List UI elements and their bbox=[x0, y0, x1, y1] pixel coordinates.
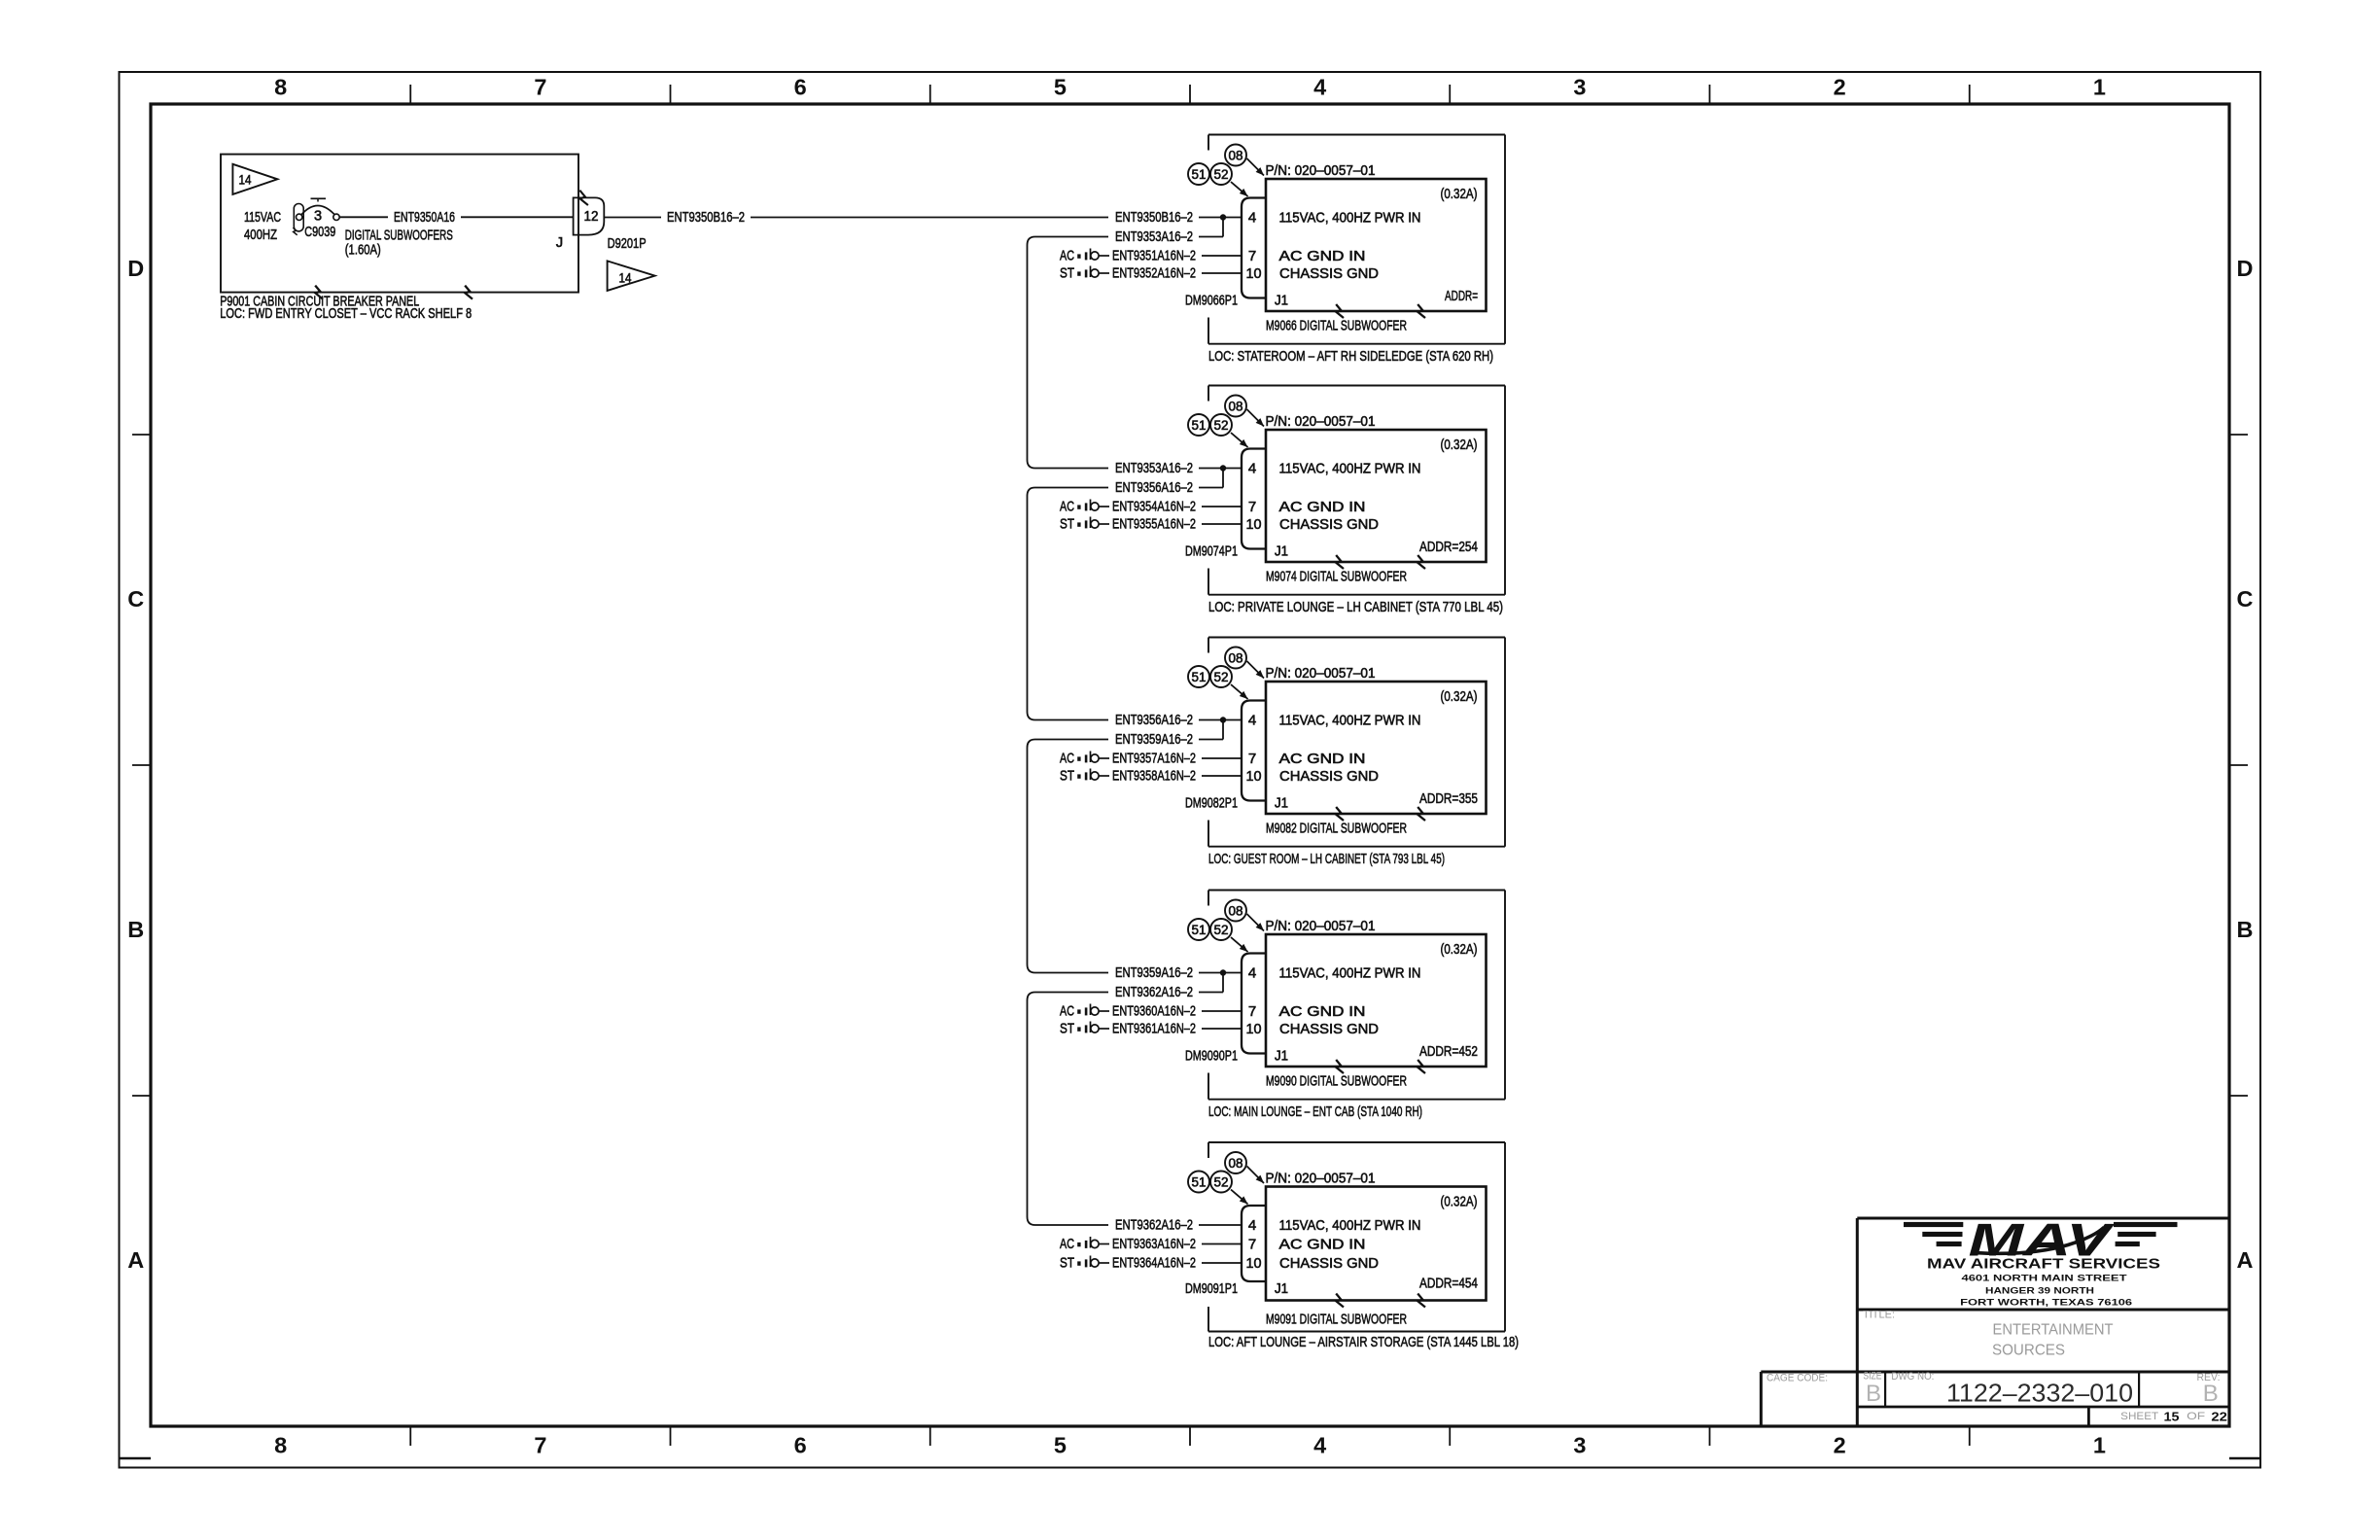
svg-text:AC: AC bbox=[1060, 1236, 1074, 1252]
svg-text:3: 3 bbox=[1573, 74, 1586, 99]
svg-text:8: 8 bbox=[274, 74, 287, 99]
svg-text:22: 22 bbox=[2211, 1410, 2227, 1424]
svg-text:ENT9354A16N–2: ENT9354A16N–2 bbox=[1112, 499, 1196, 515]
svg-text:B: B bbox=[2203, 1381, 2219, 1407]
svg-text:CAGE CODE:: CAGE CODE: bbox=[1767, 1373, 1828, 1384]
svg-text:CHASSIS GND: CHASSIS GND bbox=[1279, 768, 1379, 785]
svg-text:M9091 DIGITAL SUBWOOFER: M9091 DIGITAL SUBWOOFER bbox=[1266, 1312, 1407, 1328]
svg-text:52: 52 bbox=[1214, 418, 1229, 433]
svg-text:2: 2 bbox=[1834, 1433, 1846, 1458]
svg-text:LOC: AFT LOUNGE – AIRSTAIR: LOC: AFT LOUNGE – AIRSTAIR STORAGE (STA … bbox=[1208, 1334, 1519, 1350]
svg-text:A: A bbox=[2237, 1247, 2254, 1273]
svg-text:1: 1 bbox=[2093, 1433, 2106, 1458]
svg-text:C9039: C9039 bbox=[304, 224, 335, 240]
svg-text:115VAC, 400HZ PWR IN: 115VAC, 400HZ PWR IN bbox=[1279, 1217, 1421, 1234]
svg-text:ADDR=454: ADDR=454 bbox=[1419, 1276, 1478, 1292]
svg-text:115VAC: 115VAC bbox=[244, 209, 281, 226]
svg-text:4: 4 bbox=[1248, 964, 1256, 981]
svg-text:7: 7 bbox=[1248, 499, 1256, 515]
svg-text:TITLE:: TITLE: bbox=[1863, 1310, 1895, 1321]
svg-text:(0.32A): (0.32A) bbox=[1441, 688, 1478, 705]
svg-text:14: 14 bbox=[619, 271, 632, 286]
svg-text:LOC: FWD ENTRY CLOSET – V: LOC: FWD ENTRY CLOSET – VCC RACK SHELF 8 bbox=[220, 305, 472, 322]
svg-text:AC GND IN: AC GND IN bbox=[1279, 1236, 1366, 1252]
svg-text:ENT9363A16N–2: ENT9363A16N–2 bbox=[1112, 1236, 1196, 1252]
svg-text:J1: J1 bbox=[1275, 795, 1288, 812]
svg-text:(0.32A): (0.32A) bbox=[1441, 437, 1478, 453]
svg-text:J1: J1 bbox=[1275, 543, 1288, 560]
svg-text:CHASSIS GND: CHASSIS GND bbox=[1279, 516, 1379, 533]
svg-text:52: 52 bbox=[1214, 167, 1229, 182]
svg-text:CHASSIS GND: CHASSIS GND bbox=[1279, 265, 1379, 282]
svg-text:DM9090P1: DM9090P1 bbox=[1185, 1048, 1238, 1065]
svg-text:(0.32A): (0.32A) bbox=[1441, 941, 1478, 958]
svg-text:6: 6 bbox=[794, 1433, 807, 1458]
svg-text:AC GND IN: AC GND IN bbox=[1279, 1003, 1366, 1020]
svg-text:10: 10 bbox=[1246, 516, 1262, 533]
svg-text:2: 2 bbox=[1834, 74, 1846, 99]
svg-text:4: 4 bbox=[1248, 712, 1256, 728]
svg-text:D9201P: D9201P bbox=[608, 235, 647, 252]
svg-text:B: B bbox=[2237, 917, 2254, 942]
svg-text:08: 08 bbox=[1229, 1156, 1243, 1171]
svg-text:LOC: PRIVATE LOUNGE – LH: LOC: PRIVATE LOUNGE – LH CABINET (STA 77… bbox=[1208, 599, 1503, 615]
svg-text:4: 4 bbox=[1248, 1217, 1256, 1234]
svg-text:M9074 DIGITAL SUBWOOFER: M9074 DIGITAL SUBWOOFER bbox=[1266, 569, 1407, 585]
svg-text:4: 4 bbox=[1313, 1433, 1326, 1458]
svg-text:CHASSIS GND: CHASSIS GND bbox=[1279, 1255, 1379, 1272]
svg-text:C: C bbox=[2237, 586, 2254, 612]
svg-text:DM9066P1: DM9066P1 bbox=[1185, 293, 1238, 309]
svg-text:P/N: 020–0057–01: P/N: 020–0057–01 bbox=[1266, 162, 1376, 179]
svg-text:ST: ST bbox=[1060, 265, 1074, 282]
svg-text:51: 51 bbox=[1192, 923, 1207, 937]
svg-text:10: 10 bbox=[1246, 265, 1262, 282]
svg-text:ADDR=452: ADDR=452 bbox=[1419, 1043, 1478, 1060]
svg-text:P/N: 020–0057–01: P/N: 020–0057–01 bbox=[1266, 1170, 1376, 1186]
svg-text:ENT9353A16–2: ENT9353A16–2 bbox=[1115, 460, 1193, 476]
svg-text:HANGER 39 NORTH: HANGER 39 NORTH bbox=[1985, 1285, 2094, 1296]
svg-text:10: 10 bbox=[1246, 1021, 1262, 1037]
svg-text:08: 08 bbox=[1229, 903, 1243, 918]
svg-text:3: 3 bbox=[314, 208, 322, 224]
svg-text:AC GND IN: AC GND IN bbox=[1279, 751, 1366, 767]
svg-text:J1: J1 bbox=[1275, 293, 1288, 309]
svg-text:AC: AC bbox=[1060, 248, 1074, 264]
svg-text:P/N: 020–0057–01: P/N: 020–0057–01 bbox=[1266, 665, 1376, 682]
svg-text:51: 51 bbox=[1192, 1174, 1207, 1189]
svg-text:P/N: 020–0057–01: P/N: 020–0057–01 bbox=[1266, 413, 1376, 430]
svg-text:DM9074P1: DM9074P1 bbox=[1185, 543, 1238, 560]
svg-text:6: 6 bbox=[794, 74, 807, 99]
svg-text:D: D bbox=[127, 256, 144, 281]
svg-text:4: 4 bbox=[1248, 460, 1256, 476]
svg-text:ENT9352A16N–2: ENT9352A16N–2 bbox=[1112, 265, 1196, 282]
svg-text:LOC: STATEROOM – AFT RH S: LOC: STATEROOM – AFT RH SIDELEDGE (STA 6… bbox=[1208, 348, 1493, 365]
svg-text:ENTERTAINMENT: ENTERTAINMENT bbox=[1993, 1322, 2114, 1339]
svg-text:J1: J1 bbox=[1275, 1048, 1288, 1065]
svg-text:C: C bbox=[127, 586, 144, 612]
svg-text:115VAC, 400HZ PWR IN: 115VAC, 400HZ PWR IN bbox=[1279, 460, 1421, 476]
svg-text:115VAC, 400HZ PWR IN: 115VAC, 400HZ PWR IN bbox=[1279, 964, 1421, 981]
svg-text:7: 7 bbox=[534, 74, 546, 99]
svg-text:ENT9360A16N–2: ENT9360A16N–2 bbox=[1112, 1003, 1196, 1020]
svg-text:10: 10 bbox=[1246, 1255, 1262, 1272]
svg-text:08: 08 bbox=[1229, 650, 1243, 665]
svg-text:4: 4 bbox=[1248, 209, 1256, 226]
svg-text:115VAC, 400HZ PWR IN: 115VAC, 400HZ PWR IN bbox=[1279, 209, 1421, 226]
svg-text:ST: ST bbox=[1060, 1255, 1074, 1272]
svg-text:ST: ST bbox=[1060, 516, 1074, 533]
svg-text:ENT9362A16–2: ENT9362A16–2 bbox=[1115, 984, 1193, 1000]
svg-text:ENT9364A16N–2: ENT9364A16N–2 bbox=[1112, 1255, 1196, 1272]
svg-text:5: 5 bbox=[1054, 1433, 1067, 1458]
svg-text:ENT9359A16–2: ENT9359A16–2 bbox=[1115, 964, 1193, 981]
svg-text:MAV AIRCRAFT SERVICES: MAV AIRCRAFT SERVICES bbox=[1927, 1257, 2160, 1273]
svg-text:12: 12 bbox=[584, 209, 599, 225]
svg-text:10: 10 bbox=[1246, 768, 1262, 785]
svg-text:1122–2332–010: 1122–2332–010 bbox=[1946, 1379, 2133, 1408]
svg-text:51: 51 bbox=[1192, 167, 1207, 182]
svg-text:AC: AC bbox=[1060, 1003, 1074, 1020]
svg-text:DWG NO:: DWG NO: bbox=[1891, 1371, 1934, 1382]
svg-text:D: D bbox=[2237, 256, 2254, 281]
svg-text:B: B bbox=[1866, 1381, 1881, 1407]
svg-text:SHEET: SHEET bbox=[2120, 1411, 2158, 1422]
svg-text:LOC: GUEST ROOM – LH CABI: LOC: GUEST ROOM – LH CABINET (STA 793 LB… bbox=[1208, 851, 1445, 867]
svg-text:AC: AC bbox=[1060, 751, 1074, 767]
svg-text:B: B bbox=[127, 917, 144, 942]
svg-text:7: 7 bbox=[534, 1433, 546, 1458]
svg-text:ENT9351A16N–2: ENT9351A16N–2 bbox=[1112, 248, 1196, 264]
svg-text:4: 4 bbox=[1313, 74, 1326, 99]
svg-text:ENT9350A16: ENT9350A16 bbox=[394, 209, 455, 226]
svg-text:14: 14 bbox=[239, 173, 252, 188]
svg-text:LOC: MAIN LOUNGE – ENT CA: LOC: MAIN LOUNGE – ENT CAB (STA 1040 RH) bbox=[1208, 1103, 1422, 1120]
svg-text:400HZ: 400HZ bbox=[244, 227, 277, 243]
svg-text:ADDR=: ADDR= bbox=[1445, 288, 1478, 304]
svg-text:ENT9356A16–2: ENT9356A16–2 bbox=[1115, 479, 1193, 496]
svg-text:J1: J1 bbox=[1275, 1280, 1288, 1297]
svg-text:SOURCES: SOURCES bbox=[1992, 1343, 2065, 1359]
svg-text:08: 08 bbox=[1229, 148, 1243, 162]
svg-text:ST: ST bbox=[1060, 1021, 1074, 1037]
svg-text:J: J bbox=[556, 235, 563, 251]
svg-text:ENT9361A16N–2: ENT9361A16N–2 bbox=[1112, 1021, 1196, 1037]
svg-text:ENT9357A16N–2: ENT9357A16N–2 bbox=[1112, 751, 1196, 767]
svg-text:52: 52 bbox=[1214, 923, 1229, 937]
svg-text:M9090 DIGITAL SUBWOOFER: M9090 DIGITAL SUBWOOFER bbox=[1266, 1073, 1407, 1090]
svg-text:4601 NORTH MAIN STREET: 4601 NORTH MAIN STREET bbox=[1962, 1274, 2127, 1284]
svg-text:FORT WORTH, TEXAS 76106: FORT WORTH, TEXAS 76106 bbox=[1960, 1298, 2132, 1309]
svg-text:5: 5 bbox=[1054, 74, 1067, 99]
svg-text:ENT9350B16–2: ENT9350B16–2 bbox=[667, 209, 745, 226]
svg-text:115VAC, 400HZ PWR IN: 115VAC, 400HZ PWR IN bbox=[1279, 712, 1421, 728]
svg-text:P/N: 020–0057–01: P/N: 020–0057–01 bbox=[1266, 918, 1376, 934]
svg-text:A: A bbox=[127, 1247, 144, 1273]
svg-text:ENT9355A16N–2: ENT9355A16N–2 bbox=[1112, 516, 1196, 533]
svg-text:ADDR=254: ADDR=254 bbox=[1419, 539, 1478, 555]
svg-text:ENT9353A16–2: ENT9353A16–2 bbox=[1115, 228, 1193, 245]
svg-text:OF: OF bbox=[2187, 1411, 2205, 1422]
svg-text:7: 7 bbox=[1248, 1003, 1256, 1020]
svg-text:51: 51 bbox=[1192, 670, 1207, 684]
svg-text:M9066 DIGITAL SUBWOOFER: M9066 DIGITAL SUBWOOFER bbox=[1266, 318, 1407, 334]
svg-text:7: 7 bbox=[1248, 248, 1256, 264]
svg-text:(0.32A): (0.32A) bbox=[1441, 1193, 1478, 1209]
svg-text:(1.60A): (1.60A) bbox=[345, 241, 381, 258]
svg-text:DM9091P1: DM9091P1 bbox=[1185, 1280, 1238, 1297]
svg-text:CHASSIS GND: CHASSIS GND bbox=[1279, 1021, 1379, 1037]
svg-text:8: 8 bbox=[274, 1433, 287, 1458]
svg-text:ENT9350B16–2: ENT9350B16–2 bbox=[1115, 209, 1193, 226]
svg-text:7: 7 bbox=[1248, 751, 1256, 767]
svg-text:08: 08 bbox=[1229, 399, 1243, 413]
svg-text:ENT9356A16–2: ENT9356A16–2 bbox=[1115, 712, 1193, 728]
svg-text:AC GND IN: AC GND IN bbox=[1279, 248, 1366, 264]
svg-text:ST: ST bbox=[1060, 768, 1074, 785]
svg-text:AC: AC bbox=[1060, 499, 1074, 515]
svg-text:ENT9359A16–2: ENT9359A16–2 bbox=[1115, 731, 1193, 748]
svg-text:DM9082P1: DM9082P1 bbox=[1185, 795, 1238, 812]
svg-text:52: 52 bbox=[1214, 1174, 1229, 1189]
svg-text:52: 52 bbox=[1214, 670, 1229, 684]
svg-text:15: 15 bbox=[2164, 1410, 2180, 1424]
svg-text:ADDR=355: ADDR=355 bbox=[1419, 790, 1478, 807]
svg-text:51: 51 bbox=[1192, 418, 1207, 433]
svg-text:AC GND IN: AC GND IN bbox=[1279, 499, 1366, 515]
svg-text:(0.32A): (0.32A) bbox=[1441, 186, 1478, 202]
svg-text:ENT9358A16N–2: ENT9358A16N–2 bbox=[1112, 768, 1196, 785]
svg-text:ENT9362A16–2: ENT9362A16–2 bbox=[1115, 1217, 1193, 1234]
svg-text:3: 3 bbox=[1573, 1433, 1586, 1458]
svg-text:M9082 DIGITAL SUBWOOFER: M9082 DIGITAL SUBWOOFER bbox=[1266, 821, 1407, 837]
svg-text:7: 7 bbox=[1248, 1236, 1256, 1252]
svg-text:1: 1 bbox=[2093, 74, 2106, 99]
